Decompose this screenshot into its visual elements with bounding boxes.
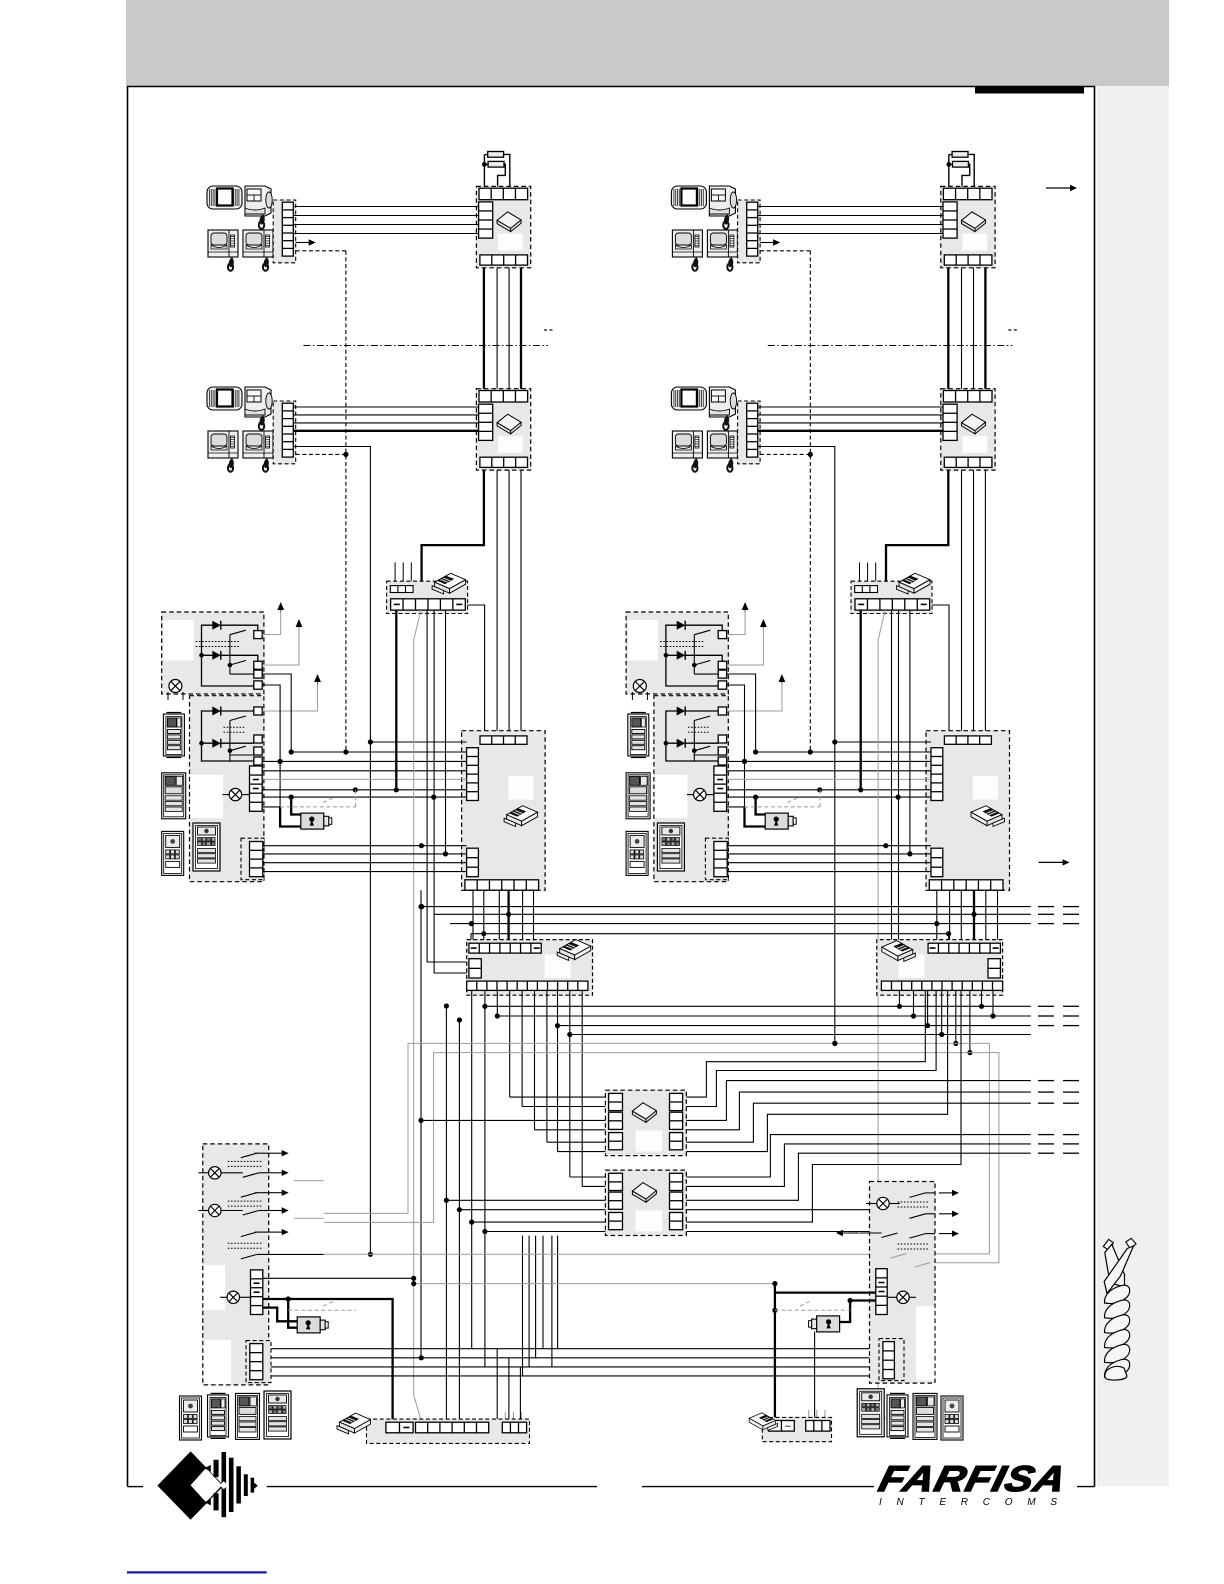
entrance panel icon B left	[162, 773, 186, 819]
apartment junction box left	[467, 940, 593, 996]
videophone group floor1 left	[207, 186, 296, 271]
entrance panel icon A right	[628, 713, 649, 758]
floor distributor DV4 floor2 left	[476, 389, 530, 470]
bottom bus vertical links to power supply	[446, 1006, 520, 1419]
apartment junction box right	[877, 940, 1003, 996]
riser bus floor1-floor2 left	[484, 268, 521, 389]
wire bus apartment-to-distributor floor1 right	[758, 207, 943, 234]
power supply unit left	[387, 562, 468, 613]
relay group box lower right	[654, 696, 729, 882]
wire apartment floor2 downfeed left	[293, 447, 373, 1257]
horizontal band wires to exchanger left	[263, 742, 467, 797]
FARFISA wordmark	[875, 1459, 1071, 1499]
door station left terminal column	[251, 1270, 263, 1315]
door lock release right bottom	[809, 1316, 840, 1332]
dashed riser call wire left	[345, 251, 347, 752]
videophone group floor2 right	[671, 387, 760, 472]
dashed call wire floor1 right	[760, 250, 810, 252]
videophone group floor2 left	[207, 387, 296, 472]
door station left lamp	[220, 1291, 251, 1303]
right gray margin strip	[1097, 86, 1169, 1486]
door lock release right	[765, 813, 788, 829]
top gray header band	[126, 0, 1169, 86]
svg-text:FARFISA: FARFISA	[875, 1459, 1071, 1499]
bottom long bus wires	[263, 1349, 875, 1376]
relay group box lower left	[190, 696, 265, 882]
ditto marks left	[544, 329, 553, 331]
door station right lamp	[887, 1291, 916, 1303]
power supply unit right	[851, 562, 932, 613]
wire bus apartment-to-distributor floor1 left	[293, 207, 478, 234]
door station right switch rows	[836, 1190, 959, 1267]
exchanger drop bus left	[473, 890, 534, 943]
relay group box upper left	[162, 612, 264, 694]
entrance panels bottom right	[857, 1389, 884, 1437]
svg-text:INTERCOMS: INTERCOMS	[879, 1497, 1065, 1508]
door lock release left bottom	[297, 1317, 320, 1333]
entrance panel icon C left	[162, 831, 184, 875]
filter B input wires	[444, 1177, 606, 1234]
power supply drop wires left	[396, 610, 469, 1419]
lamp symbol relay upper right	[632, 680, 647, 701]
gray cross wire lower	[324, 1253, 870, 1255]
frame bottom border segments	[128, 1486, 1095, 1488]
junction dots cross level	[482, 1004, 837, 1046]
junction fan-out bus right	[897, 990, 996, 1055]
wire relay1 sq3 drop left	[262, 674, 291, 752]
horizontal band wires to exchanger right	[727, 742, 931, 797]
door station right terminal column	[876, 1269, 887, 1315]
entrance panels bottom left	[180, 1396, 202, 1440]
riser bus floor2-exchanger right	[886, 470, 985, 736]
arrow up 2 left	[262, 619, 302, 665]
cross wires exchanger level	[421, 907, 1031, 944]
terminating resistors above floor1 right	[948, 155, 950, 187]
arrow up 1 right	[727, 602, 749, 635]
entrance panel icon D right	[657, 823, 684, 871]
arrow continuation floor1 left	[296, 239, 316, 245]
bottom bus vertical links to filter B	[523, 1236, 558, 1376]
dashed riser call wire right	[809, 251, 811, 752]
filter unit box B	[605, 1170, 686, 1235]
bottom bus junction dots	[419, 1003, 462, 1360]
ditto marks right	[1008, 329, 1017, 331]
wire apartment floor2 downfeed right	[758, 447, 838, 1047]
lower wires to exchanger left	[263, 843, 467, 871]
entrance panel icon A left	[163, 713, 184, 758]
filter A output staircase	[686, 990, 1031, 1151]
wire bus apartment-to-distributor floor2 left	[293, 407, 478, 431]
videophone group floor1 right	[671, 186, 760, 271]
ACI company logo diamond	[157, 1451, 257, 1519]
door station left lower dashed column	[246, 1341, 271, 1383]
wire relay1 sq4 drop right	[727, 685, 745, 807]
door station right lower dashed column	[879, 1339, 904, 1381]
relay group box upper right	[626, 612, 728, 694]
riser bus floor1-floor2 right	[948, 268, 985, 389]
power supply drop wires right	[861, 610, 910, 1419]
continuation dash marks right edge	[1038, 907, 1079, 1154]
junction fan-out bus left	[472, 990, 583, 1367]
long vertical wire V421	[418, 890, 423, 1358]
arrow up 1 left	[262, 602, 284, 635]
floor distributor DV4 floor1 right	[941, 186, 995, 267]
gray wire path door-to-door 1	[324, 1043, 990, 1254]
arrow to further risers mid right	[1039, 859, 1070, 865]
dashed call wire floor1 left	[296, 250, 346, 252]
arrow to further risers top right	[1046, 185, 1077, 191]
arrow continuation floor1 right	[760, 239, 780, 245]
door station left column wires	[263, 1276, 417, 1419]
gray wire path door-to-door 2	[324, 1053, 999, 1263]
exchanger unit right	[926, 731, 1010, 891]
terminating resistors above floor1 left	[483, 155, 485, 187]
main frame border	[128, 87, 1095, 1487]
door station right column wires	[772, 1281, 875, 1417]
floor separator dash-dot line right	[768, 345, 1013, 347]
exchanger drop bus right	[937, 890, 998, 943]
gray cross wire lock level	[411, 1281, 775, 1286]
cross wires junction level	[485, 1006, 1031, 1034]
arrow up 2 right	[727, 619, 767, 665]
junction dots exchanger level	[419, 904, 977, 936]
riser bus floor2-exchanger left	[422, 470, 521, 736]
black tab top right	[975, 86, 1084, 94]
filter B output staircase	[686, 990, 1031, 1231]
exchanger unit left	[462, 731, 545, 891]
twisted pair cable icon right margin	[1103, 1238, 1136, 1380]
filter unit box A	[605, 1090, 686, 1155]
lower wires to exchanger right	[727, 843, 931, 871]
main door station box left	[203, 1144, 269, 1385]
wire bus apartment-to-distributor floor2 right	[758, 407, 943, 431]
junction dots band left	[278, 739, 437, 799]
main door station box right	[870, 1182, 936, 1384]
arrow up 3 right	[727, 674, 786, 711]
filter A input wires	[421, 1097, 605, 1152]
entrance panel icon B right	[626, 773, 650, 819]
dashed call wire floor2 left	[296, 452, 349, 457]
arrow up 3 left	[262, 674, 321, 711]
blue footer line	[127, 1571, 267, 1573]
lamp symbol relay upper left	[168, 680, 183, 701]
wire relay1 sq3 drop right	[727, 674, 756, 752]
dashed call wire floor2 right	[760, 452, 813, 457]
main power supply bottom	[367, 1412, 530, 1444]
floor distributor DV4 floor1 left	[476, 186, 530, 267]
door station left switch rows	[198, 1150, 323, 1259]
wire relay1 sq4 drop left	[262, 685, 280, 807]
entrance panel icon C right	[626, 831, 648, 875]
lock wiring right	[727, 790, 820, 827]
lock wiring left	[263, 790, 356, 827]
junction dots band right	[742, 739, 901, 799]
door lock release left	[301, 813, 324, 829]
AC transformer bottom right	[762, 1410, 831, 1442]
floor distributor DV4 floor2 right	[941, 389, 995, 470]
entrance panel icon D left	[193, 823, 220, 871]
floor separator dash-dot line left	[303, 345, 548, 347]
svg-text:∼: ∼	[784, 1421, 792, 1431]
